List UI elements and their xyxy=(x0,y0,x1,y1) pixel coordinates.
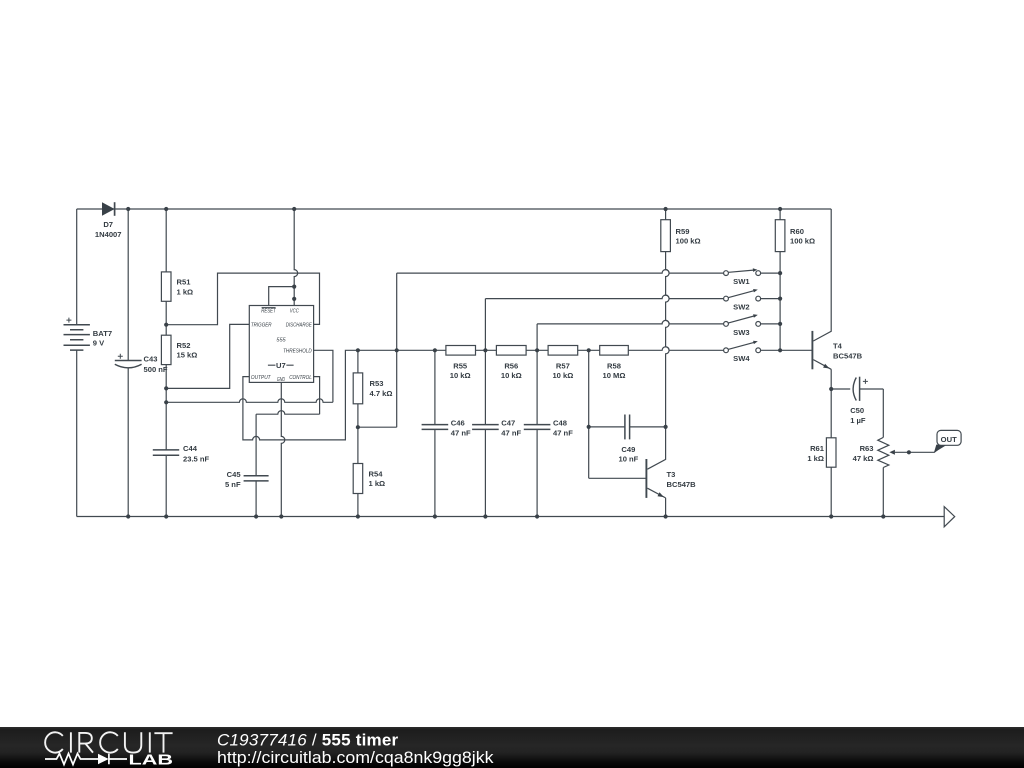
svg-text:R59: R59 xyxy=(676,227,690,236)
capacitor C45 xyxy=(225,414,269,516)
junction R56-R57 xyxy=(535,348,539,352)
junction R53 top xyxy=(356,348,360,352)
svg-text:VCC: VCC xyxy=(290,309,300,315)
junction VCC top rail xyxy=(292,207,296,211)
capacitor C50 xyxy=(831,377,883,425)
junction R63 bottom rail xyxy=(881,514,885,518)
svg-text:500 nF: 500 nF xyxy=(144,365,168,374)
resistor R54 xyxy=(353,427,385,516)
svg-text:10 nF: 10 nF xyxy=(618,455,638,464)
svg-text:R61: R61 xyxy=(810,444,825,453)
wire VCC from top rail (hop) xyxy=(294,209,298,306)
junction C46 rail xyxy=(433,348,437,352)
junction GND bottom rail xyxy=(279,514,283,518)
svg-text:100 kΩ: 100 kΩ xyxy=(676,237,701,246)
wire R52 junction to trigger xyxy=(166,324,249,388)
svg-text:47 nF: 47 nF xyxy=(501,428,521,437)
svg-text:SW4: SW4 xyxy=(733,354,750,363)
junction SW2 right xyxy=(778,297,782,301)
svg-text:R60: R60 xyxy=(790,227,804,236)
junction T3 emitter bottom rail xyxy=(664,514,668,518)
resistor R55 xyxy=(446,346,497,381)
switch SW2 (open) xyxy=(724,289,781,312)
resistor R61 xyxy=(807,389,836,517)
svg-text:1 kΩ: 1 kΩ xyxy=(177,287,194,296)
junction R59 top rail xyxy=(664,207,668,211)
svg-text:23.5 nF: 23.5 nF xyxy=(183,455,210,464)
junction THRESHOLD-C44 xyxy=(164,400,168,404)
svg-text:C43: C43 xyxy=(144,354,158,363)
svg-text:OUTPUT: OUTPUT xyxy=(251,375,271,381)
junction R52-TRIGGER xyxy=(164,386,168,390)
wire top rail xyxy=(77,208,832,210)
battery BAT7 xyxy=(64,318,113,351)
wire output net xyxy=(243,350,446,440)
svg-text:10 kΩ: 10 kΩ xyxy=(501,371,522,380)
transistor T3 xyxy=(646,427,696,517)
svg-text:10 kΩ: 10 kΩ xyxy=(552,371,573,380)
wire switch rail 2 xyxy=(485,295,723,350)
wire R51 junction to discharge xyxy=(166,273,319,325)
svg-text:TRIGGER: TRIGGER xyxy=(251,323,272,329)
capacitor C44 xyxy=(153,388,210,516)
resistor R56 xyxy=(496,346,548,381)
svg-text:10 MΩ: 10 MΩ xyxy=(603,371,626,380)
svg-text:GND: GND xyxy=(277,377,285,383)
svg-text:1 µF: 1 µF xyxy=(850,416,866,425)
svg-text:R55: R55 xyxy=(453,362,468,371)
wire left rail lower xyxy=(76,350,78,516)
wire R59 down with 4 hops xyxy=(666,252,670,427)
svg-text:1 kΩ: 1 kΩ xyxy=(807,454,824,463)
svg-text:R63: R63 xyxy=(860,444,874,453)
junction R51 top rail xyxy=(164,207,168,211)
junction C49 left xyxy=(587,425,591,429)
junction T4 emitter C50 xyxy=(829,387,833,391)
capacitor C43 xyxy=(115,209,168,517)
IC U7 555 timer xyxy=(249,306,313,383)
svg-text:LAB: LAB xyxy=(129,753,174,768)
svg-text:DISCHARGE: DISCHARGE xyxy=(286,323,312,329)
svg-text:4.7 kΩ: 4.7 kΩ xyxy=(370,389,393,398)
svg-text:C19377416 / 555 timer: C19377416 / 555 timer xyxy=(217,731,399,750)
svg-text:47 kΩ: 47 kΩ xyxy=(853,454,874,463)
junction C43 bottom rail xyxy=(126,514,130,518)
wire RESET branch xyxy=(269,287,295,306)
wire switch rail 1 (hop at R59) xyxy=(397,270,724,273)
svg-text:R54: R54 xyxy=(369,470,384,479)
svg-text:R57: R57 xyxy=(556,362,570,371)
wire R53 bottom link riser xyxy=(358,273,397,427)
junction C43 top rail xyxy=(126,207,130,211)
wire switch rail 3 xyxy=(537,320,723,350)
svg-text:http://circuitlab.com/cqa8nk9g: http://circuitlab.com/cqa8nk9gg8jkk xyxy=(217,748,494,767)
svg-text:CONTROL: CONTROL xyxy=(289,375,312,381)
wire R57-R58 junction drop to T3 base xyxy=(589,350,646,478)
footer bar xyxy=(0,727,1024,768)
resistor R57 xyxy=(548,346,600,381)
junction R51-R52 xyxy=(164,323,168,327)
diode D7 xyxy=(95,202,122,239)
capacitor C48 xyxy=(524,350,573,516)
svg-text:BC547B: BC547B xyxy=(667,480,697,489)
svg-text:555: 555 xyxy=(276,338,286,344)
svg-text:T3: T3 xyxy=(667,470,676,479)
svg-text:C49: C49 xyxy=(621,445,635,454)
svg-text:C47: C47 xyxy=(501,419,515,428)
logo CIRCUIT drawn letters xyxy=(45,732,172,752)
resistor R53 xyxy=(353,350,392,427)
flag OUT xyxy=(934,430,961,452)
capacitor C49 xyxy=(589,415,666,464)
svg-text:15 kΩ: 15 kΩ xyxy=(177,351,198,360)
junction SW3 right xyxy=(778,322,782,326)
junction C47 bottom rail xyxy=(483,514,487,518)
capacitor C47 xyxy=(472,350,521,516)
wire bottom rail xyxy=(77,516,945,518)
junction R54 bottom rail xyxy=(356,514,360,518)
junction R63 wiper wire xyxy=(907,450,911,454)
svg-text:C46: C46 xyxy=(451,419,465,428)
junction C44 bottom rail xyxy=(164,514,168,518)
junction R57-R58 xyxy=(587,348,591,352)
svg-text:47 nF: 47 nF xyxy=(553,428,573,437)
wire threshold net xyxy=(166,350,333,402)
svg-text:10 kΩ: 10 kΩ xyxy=(450,371,471,380)
svg-text:47 nF: 47 nF xyxy=(451,428,471,437)
svg-text:R53: R53 xyxy=(370,379,384,388)
junction R60 top rail xyxy=(778,207,782,211)
svg-text:9 V: 9 V xyxy=(93,338,105,347)
junction C46 bottom rail xyxy=(433,514,437,518)
svg-text:BC547B: BC547B xyxy=(833,351,863,360)
junction R53 bottom xyxy=(356,425,360,429)
junction C45 bottom rail xyxy=(254,514,258,518)
junction VCC pin xyxy=(292,297,296,301)
junction R61 bottom rail xyxy=(829,514,833,518)
svg-text:100 kΩ: 100 kΩ xyxy=(790,237,815,246)
resistor R51 xyxy=(161,209,193,325)
switch SW1 (closed) xyxy=(724,268,781,286)
switch SW4 (open) xyxy=(724,341,781,364)
svg-text:SW2: SW2 xyxy=(733,303,749,312)
wire control net xyxy=(256,377,320,415)
svg-text:OUT: OUT xyxy=(941,435,957,444)
svg-text:1N4007: 1N4007 xyxy=(95,230,122,239)
svg-text:U7: U7 xyxy=(276,361,286,370)
svg-text:C44: C44 xyxy=(183,444,198,453)
potentiometer R63 xyxy=(853,389,943,517)
svg-text:T4: T4 xyxy=(833,341,843,350)
svg-text:C45: C45 xyxy=(227,470,242,479)
svg-text:C48: C48 xyxy=(553,419,567,428)
output arrow xyxy=(944,507,955,527)
wire left rail upper xyxy=(76,209,78,325)
svg-text:R52: R52 xyxy=(177,341,191,350)
svg-text:R56: R56 xyxy=(504,362,518,371)
wire switch right rail xyxy=(780,273,811,350)
junction SW4 right xyxy=(778,348,782,352)
svg-text:1 kΩ: 1 kΩ xyxy=(369,479,386,488)
svg-text:R51: R51 xyxy=(177,278,192,287)
transistor T4 xyxy=(812,209,862,389)
junction C49 right xyxy=(664,425,668,429)
switch SW3 (open) xyxy=(724,314,781,337)
svg-text:BAT7: BAT7 xyxy=(93,329,112,338)
svg-text:SW1: SW1 xyxy=(733,277,750,286)
resistor R59 xyxy=(661,209,701,252)
svg-text:R58: R58 xyxy=(607,362,621,371)
junction RESET-VCC xyxy=(292,285,296,289)
resistor R52 xyxy=(161,325,197,389)
logo zigzag and diode xyxy=(45,754,127,765)
svg-text:SW3: SW3 xyxy=(733,328,749,337)
resistor R60 xyxy=(775,209,815,273)
junction SW1 right xyxy=(778,271,782,275)
svg-text:5 nF: 5 nF xyxy=(225,480,241,489)
capacitor C46 xyxy=(422,350,471,516)
junction C48 bottom rail xyxy=(535,514,539,518)
junction R55-R56 xyxy=(483,348,487,352)
junction riser rail xyxy=(395,348,399,352)
svg-text:D7: D7 xyxy=(103,220,113,229)
resistor R58 xyxy=(600,346,724,381)
svg-text:RESET: RESET xyxy=(261,309,276,315)
wire GND pin to bottom rail (hop) xyxy=(281,382,285,516)
svg-text:THRESHOLD: THRESHOLD xyxy=(283,349,312,355)
svg-text:C50: C50 xyxy=(850,406,864,415)
